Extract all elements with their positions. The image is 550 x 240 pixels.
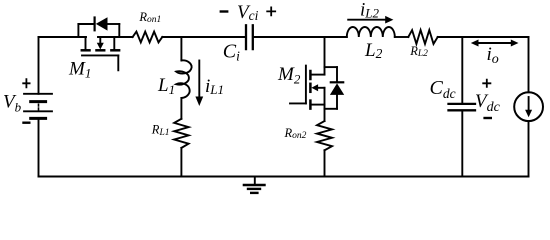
inductor L1 coil bbox=[176, 60, 191, 98]
body diode D2 cathode bar bbox=[331, 81, 343, 83]
MOSFET M1 drain terminal bbox=[85, 37, 87, 49]
body diode D1 left riser bbox=[77, 24, 79, 37]
body diode D2 triangle bbox=[330, 83, 344, 95]
current source arrow shaft bbox=[528, 97, 530, 110]
MOSFET M2 branch from top wire bbox=[324, 37, 326, 75]
MOSFET M2 body contact bar bbox=[309, 84, 312, 92]
ground stub bbox=[254, 177, 256, 185]
wire left rail bottom bbox=[38, 118, 40, 176]
svg-text:Cdc: Cdc bbox=[430, 77, 456, 101]
label minus of battery bbox=[22, 121, 30, 123]
MOSFET M2 source contact bar bbox=[309, 101, 312, 109]
svg-text:RL2: RL2 bbox=[409, 44, 428, 59]
wire C_i right plate to L2 bbox=[254, 36, 347, 38]
battery Vb short thick plate 2 bbox=[31, 117, 46, 120]
wire top segment M1 source to R_on1 bbox=[98, 36, 133, 38]
MOSFET M1 source terminal bbox=[113, 37, 115, 49]
MOSFET M1 body arrow shaft bbox=[99, 37, 101, 43]
current arrow i_L2 head bbox=[385, 16, 393, 24]
svg-text:io: io bbox=[487, 44, 499, 67]
wire M2 source to R_on2 bbox=[324, 105, 326, 121]
label plus of battery bbox=[22, 78, 30, 88]
battery Vb long plate 1 bbox=[24, 93, 52, 95]
resistor R_on1 zigzag bbox=[133, 32, 163, 43]
label plus of V_ci bbox=[266, 7, 276, 17]
MOSFET M2 body arrow head bbox=[311, 84, 318, 91]
svg-text:iL2: iL2 bbox=[360, 0, 380, 21]
MOSFET M2 body arrow shaft bbox=[318, 87, 325, 89]
ground bar 1 bbox=[244, 184, 265, 186]
MOSFET M2 source stub bbox=[312, 104, 325, 106]
wire left rail top bbox=[38, 37, 40, 94]
body diode D1 cathode bar bbox=[93, 18, 95, 31]
svg-text:L2: L2 bbox=[364, 40, 383, 61]
svg-text:M2: M2 bbox=[277, 64, 301, 87]
capacitor C_dc branch from top wire bbox=[461, 37, 463, 103]
wire right rail below current source bbox=[528, 121, 530, 176]
svg-text:Vci: Vci bbox=[237, 2, 259, 23]
svg-text:M1: M1 bbox=[68, 58, 91, 80]
current arrow i_o left head bbox=[471, 40, 479, 47]
capacitor C_dc top plate bbox=[449, 103, 476, 105]
svg-text:Vdc: Vdc bbox=[475, 91, 501, 115]
current arrow i_o right head bbox=[511, 40, 519, 47]
MOSFET M2 gate lead bbox=[290, 102, 306, 104]
MOSFET M1 gate plate bbox=[82, 54, 118, 56]
ground bar 2 bbox=[248, 188, 260, 190]
wire R_L2 to top-right corner bbox=[438, 36, 529, 38]
svg-text:Ron2: Ron2 bbox=[284, 126, 307, 141]
svg-text:iL1: iL1 bbox=[205, 76, 224, 97]
MOSFET M2 gate plate bbox=[305, 66, 307, 104]
inductor L2 coil bbox=[347, 27, 395, 37]
MOSFET M1 drain contact bar bbox=[82, 49, 90, 52]
current arrow i_L1 head bbox=[195, 97, 203, 107]
svg-text:L1: L1 bbox=[157, 75, 175, 97]
wire L1 to R_L1 bbox=[180, 98, 182, 119]
wire bottom rail bbox=[39, 176, 529, 178]
svg-text:RL1: RL1 bbox=[151, 122, 170, 138]
body diode D1 right riser bbox=[118, 24, 120, 37]
wire R_L1 to bottom rail bbox=[180, 148, 182, 177]
wire R_on2 to bottom rail bbox=[324, 150, 326, 176]
label plus of V_dc bbox=[482, 79, 491, 88]
body diode D1 triangle bbox=[96, 17, 108, 30]
battery Vb long plate 2 bbox=[24, 110, 52, 112]
svg-text:Vb: Vb bbox=[3, 92, 22, 115]
body diode D1 top wire right bbox=[108, 23, 120, 25]
current arrow i_o double shaft bbox=[476, 42, 515, 44]
MOSFET M2 body-source connector bbox=[324, 88, 326, 105]
wire right rail above current source bbox=[528, 37, 530, 92]
ground bar 3 bbox=[251, 192, 257, 194]
wire R_on1 to C_i left plate bbox=[162, 36, 245, 38]
MOSFET M1 body arrow head bbox=[97, 43, 104, 50]
resistor R_on2 zigzag bbox=[317, 121, 332, 150]
node A branch down to L1 bbox=[180, 37, 182, 61]
capacitor C_i left plate bbox=[245, 25, 247, 49]
body diode D2 lower riser bbox=[336, 95, 338, 109]
capacitor C_i right plate bbox=[252, 25, 254, 49]
wire C_dc to bottom rail bbox=[461, 111, 463, 176]
current source circle bbox=[514, 92, 543, 121]
current source arrow head bbox=[525, 110, 532, 118]
capacitor C_dc bottom plate bbox=[449, 109, 476, 111]
body diode D2 bottom branch bbox=[325, 108, 338, 110]
body diode D2 upper riser bbox=[336, 67, 338, 82]
svg-text:Ci: Ci bbox=[223, 40, 240, 63]
battery Vb short thick plate 1 bbox=[31, 100, 46, 103]
resistor R_L2 zigzag bbox=[408, 30, 437, 44]
body diode D1 top wire left bbox=[78, 23, 94, 25]
wire L2 to R_L2 bbox=[395, 36, 409, 38]
MOSFET M1 source contact bar bbox=[111, 49, 119, 52]
current arrow i_L2 bbox=[348, 19, 386, 21]
battery Vb dotted cell continuation bbox=[38, 104, 40, 110]
body diode D2 top branch bbox=[325, 66, 338, 68]
label minus of V_ci bbox=[220, 10, 229, 12]
svg-text:Ron1: Ron1 bbox=[138, 10, 161, 25]
MOSFET M1 gate lead bbox=[117, 55, 119, 70]
MOSFET M2 drain stub bbox=[312, 74, 325, 76]
current arrow i_L1 bbox=[198, 61, 200, 98]
MOSFET M2 drain contact bar bbox=[309, 71, 312, 79]
wire top segment battery to M1 drain bbox=[39, 36, 87, 38]
resistor R_L1 zigzag bbox=[174, 119, 188, 148]
MOSFET M1 body contact bar bbox=[97, 49, 105, 52]
label minus of V_dc bbox=[483, 117, 492, 119]
